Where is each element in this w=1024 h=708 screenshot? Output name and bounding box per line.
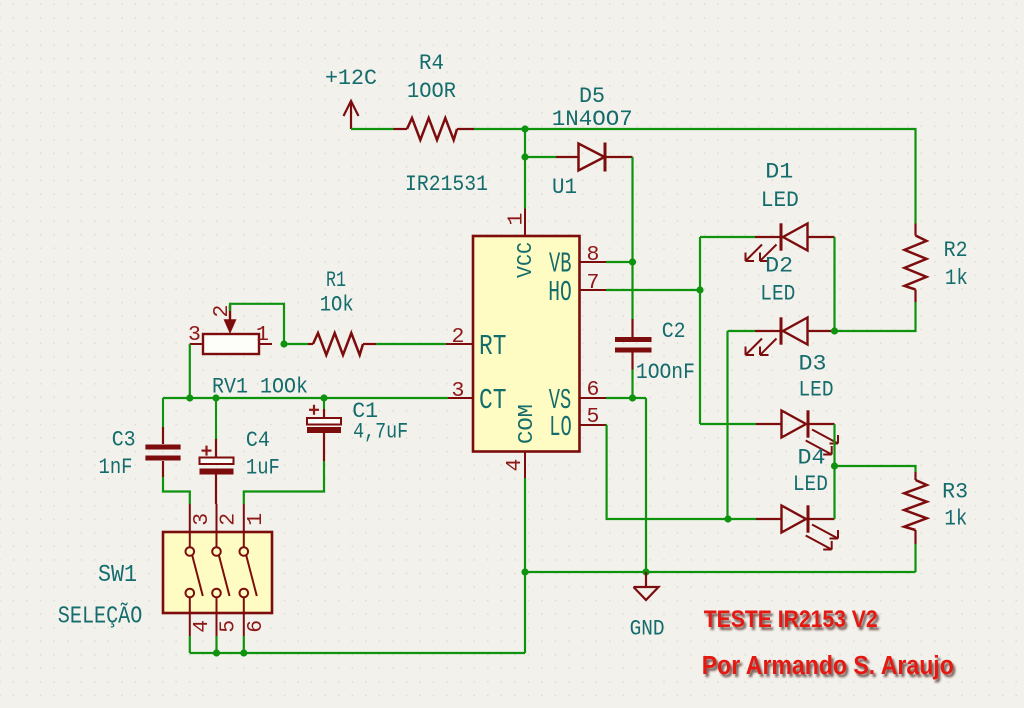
- pin number 3: [452, 379, 465, 403]
- pin number 7: [587, 271, 600, 295]
- svg-text:7: 7: [587, 271, 600, 295]
- wire C1 bottom to SW pin1: [244, 461, 324, 504]
- svg-text:LO: LO: [549, 411, 572, 444]
- svg-text:COM: COM: [515, 404, 539, 444]
- pin name LO: [549, 411, 572, 444]
- LED D1: [755, 223, 835, 250]
- label D5: [579, 83, 605, 109]
- pin name VB: [549, 248, 572, 281]
- pin number 2: [452, 325, 465, 349]
- wire C2 top: [631, 262, 633, 319]
- svg-text:1: 1: [256, 323, 269, 347]
- wire bottom rail up to COM: [524, 572, 526, 653]
- label C4: [246, 427, 270, 453]
- switch pin number 6: [244, 620, 268, 633]
- svg-text:SW1: SW1: [98, 562, 137, 589]
- RV1 pin number 3: [188, 323, 201, 347]
- svg-text:C3: C3: [112, 426, 136, 452]
- capacitor C1 polarity +: [309, 405, 319, 415]
- svg-text:1k: 1k: [945, 265, 968, 291]
- wire D3 cathode down: [833, 424, 835, 466]
- svg-text:4: 4: [190, 620, 214, 633]
- wire C3 bottom to SW pin3: [163, 477, 190, 504]
- RV1 pin number 1: [256, 323, 269, 347]
- op-amp U1 IR2153 body: [473, 236, 580, 452]
- svg-text:1Ok: 1Ok: [320, 292, 354, 318]
- svg-text:1k: 1k: [944, 506, 967, 532]
- svg-text:8: 8: [587, 243, 600, 267]
- label GND: [630, 616, 665, 642]
- svg-text:5: 5: [217, 620, 241, 633]
- label 1nF: [99, 454, 133, 480]
- RV1 pin 1 stub: [259, 343, 272, 345]
- resistor R3: [904, 472, 927, 544]
- svg-text:LED: LED: [793, 471, 828, 497]
- pin name HO: [548, 276, 572, 309]
- label U1: [552, 174, 577, 200]
- junction D5 anode tap: [521, 153, 528, 160]
- junction ground rail / GND: [642, 568, 649, 575]
- potentiometer RV1 body: [203, 334, 259, 354]
- svg-text:1OOR: 1OOR: [407, 78, 456, 104]
- pin number 4: [503, 459, 527, 472]
- svg-text:3: 3: [190, 513, 214, 526]
- wire D1 cathode to D2: [833, 237, 835, 331]
- svg-text:RT: RT: [479, 330, 507, 363]
- svg-text:1OOnF: 1OOnF: [636, 359, 695, 385]
- ground symbol GND: [634, 572, 659, 600]
- diode D5 1N4007: [556, 143, 633, 172]
- pin 8 VB stub: [580, 261, 607, 263]
- svg-text:1uF: 1uF: [246, 454, 280, 480]
- wire +12C to R4: [351, 128, 394, 130]
- switch pole 3 top pin: [189, 504, 191, 547]
- wire D5 cathode down to VB: [631, 157, 633, 262]
- label 1uF: [246, 454, 280, 480]
- wire R4 to VCC junction: [474, 128, 525, 130]
- junction bottom rail pin5: [213, 649, 220, 656]
- switch pole contact circles 2-5: [212, 547, 229, 597]
- svg-text:IR21531: IR21531: [405, 171, 488, 197]
- wire D1 anode lead: [700, 236, 755, 238]
- svg-text:RV1 1OOk: RV1 1OOk: [212, 374, 308, 400]
- wire RV1 pin3 down to CT rail: [189, 344, 191, 398]
- switch pole 5 bottom pin: [216, 598, 218, 637]
- wire R2 bottom to D2: [835, 302, 916, 331]
- pin 3 CT stub: [448, 397, 473, 399]
- resistor R2: [905, 224, 927, 303]
- svg-text:5: 5: [587, 405, 600, 429]
- switch pin number 1: [244, 513, 268, 526]
- wire switch bottom rail: [190, 652, 525, 654]
- svg-text:2: 2: [452, 325, 465, 349]
- junction D3 / D4 / R3: [831, 462, 838, 469]
- capacitor C3: [145, 398, 180, 477]
- wire D5 anode stub: [525, 156, 556, 158]
- label D3 LED: [799, 377, 834, 403]
- pin number 6: [587, 378, 600, 402]
- pin name CT: [479, 384, 507, 417]
- title TESTE IR2153 V2: [704, 606, 878, 633]
- label R4: [419, 50, 444, 76]
- label D2 LED: [760, 281, 795, 307]
- label SELECAO: [58, 603, 143, 631]
- junction bottom rail pin6: [240, 649, 247, 656]
- wire D4 cathode up: [833, 466, 835, 519]
- label R2: [944, 237, 968, 263]
- label IR21531: [405, 171, 488, 197]
- wire C2 bottom to VS: [631, 370, 633, 399]
- svg-text:LED: LED: [760, 281, 795, 307]
- junction CT / C4: [212, 394, 219, 401]
- svg-text:D1: D1: [765, 159, 793, 185]
- pin 6 VS stub: [580, 397, 607, 399]
- pin name RT: [479, 330, 507, 363]
- wire R1 to RT pin: [376, 343, 446, 345]
- junction CT / C1: [320, 394, 327, 401]
- RV1 pin number 2: [210, 305, 234, 318]
- wire HO to LED column: [606, 289, 700, 291]
- pin name VS: [549, 384, 572, 417]
- svg-text:3: 3: [452, 379, 465, 403]
- pin number 1: [505, 213, 529, 226]
- switch SW1 body: [163, 532, 272, 613]
- capacitor C1: [307, 398, 341, 461]
- LED D4 emission arrows: [806, 525, 838, 550]
- svg-text:4: 4: [503, 459, 527, 472]
- svg-text:Por Armando S. Araujo: Por Armando S. Araujo: [702, 652, 954, 680]
- switch pin number 4: [190, 620, 214, 633]
- svg-text:R1: R1: [326, 267, 346, 293]
- switch pole contact circles 1-6: [240, 547, 257, 597]
- LED D2: [755, 317, 835, 344]
- pin number 5: [587, 405, 600, 429]
- pin 2 RT stub: [446, 343, 473, 345]
- svg-text:3: 3: [188, 323, 201, 347]
- label 1N4007: [552, 106, 633, 132]
- switch pin number 3: [190, 513, 214, 526]
- wire COM pin down: [524, 478, 526, 572]
- wire D2 anode lead: [728, 330, 756, 332]
- label C2: [662, 318, 686, 344]
- junction HO / D1-D3 riser: [696, 286, 703, 293]
- junction CT / C3 riser: [186, 394, 193, 401]
- title Por Armando S. Araujo: [702, 652, 954, 680]
- RV1 pin 3 stub: [190, 343, 203, 345]
- wire top rail to R2: [525, 129, 916, 224]
- svg-text:GND: GND: [630, 616, 665, 642]
- pin 4 COM stub: [524, 452, 526, 479]
- wire junction to R3 top: [835, 466, 916, 472]
- label R3 1k: [944, 506, 967, 532]
- junction VCC rail: [521, 125, 528, 132]
- label D1: [765, 159, 793, 185]
- svg-text:HO: HO: [548, 276, 572, 309]
- svg-text:R2: R2: [944, 237, 968, 263]
- svg-text:R3: R3: [942, 479, 968, 505]
- svg-text:U1: U1: [552, 174, 577, 200]
- wire down to U1 pin1: [524, 157, 526, 209]
- junction VS / C2: [629, 394, 636, 401]
- svg-text:1: 1: [505, 213, 529, 226]
- svg-text:CT: CT: [479, 384, 507, 417]
- wire riser D2 to D4: [726, 331, 728, 519]
- label R3: [942, 479, 968, 505]
- wire ground rail: [525, 571, 916, 573]
- label RV1 100k: [212, 374, 308, 400]
- LED D4: [756, 505, 835, 532]
- wire LO down and right to D4: [607, 425, 728, 519]
- wire D4 anode lead: [728, 518, 756, 520]
- label D4: [798, 445, 826, 471]
- label SW1: [98, 562, 137, 589]
- wire VS pin to ground drop: [606, 397, 646, 399]
- wire switch pin 5 to bottom rail: [215, 636, 217, 653]
- switch pole contact circles 3-4: [186, 547, 203, 597]
- label D2: [765, 253, 793, 279]
- svg-text:1N4OO7: 1N4OO7: [552, 106, 633, 132]
- wire D3 anode lead: [700, 423, 756, 425]
- svg-text:D2: D2: [765, 253, 793, 279]
- svg-text:LED: LED: [761, 187, 799, 213]
- LED D3: [756, 410, 835, 437]
- junction RV1 pin1 / R1: [280, 340, 287, 347]
- label 4,7uF: [353, 419, 408, 445]
- wire switch pin 4 to bottom rail: [189, 636, 191, 653]
- svg-text:SELEÇÃO: SELEÇÃO: [58, 603, 143, 631]
- svg-text:D4: D4: [798, 445, 826, 471]
- pin name COM: [515, 404, 539, 444]
- junction COM / ground rail: [521, 568, 528, 575]
- label 100nF: [636, 359, 695, 385]
- svg-text:R4: R4: [419, 50, 444, 76]
- svg-text:TESTE IR2153 V2: TESTE IR2153 V2: [704, 606, 878, 633]
- wire CT rail: [163, 397, 448, 399]
- junction VB / bootstrap: [629, 258, 636, 265]
- svg-text:+12C: +12C: [325, 65, 377, 91]
- switch pole 4 bottom pin: [189, 598, 191, 637]
- switch pole 2 top pin: [216, 504, 218, 547]
- pin 5 LO stub: [580, 424, 608, 426]
- wire VB pin to junction: [606, 261, 633, 263]
- svg-text:6: 6: [587, 378, 600, 402]
- svg-text:4,7uF: 4,7uF: [353, 419, 408, 445]
- label +12C: [325, 65, 377, 91]
- label R1: [326, 267, 346, 293]
- power flag +12C arrow: [344, 101, 359, 129]
- wire RV1 to R1: [284, 343, 308, 345]
- wire RV1 wiper loop: [230, 304, 284, 344]
- switch pin number 2: [217, 513, 241, 526]
- LED D1 emission arrows: [746, 245, 777, 262]
- svg-text:1nF: 1nF: [99, 454, 133, 480]
- svg-text:C4: C4: [246, 427, 270, 453]
- resistor R1: [308, 333, 376, 355]
- wire VS drop to ground rail: [645, 398, 647, 572]
- LED D2 emission arrows: [746, 339, 777, 356]
- pin 7 HO stub: [580, 289, 607, 291]
- label C3: [112, 426, 136, 452]
- label D1 LED: [761, 187, 799, 213]
- svg-text:2: 2: [217, 513, 241, 526]
- junction D2 / R2: [831, 327, 838, 334]
- switch pole 6 bottom pin: [243, 598, 245, 637]
- capacitor C4: [200, 398, 234, 504]
- label 10k: [320, 292, 354, 318]
- svg-text:VCC: VCC: [514, 242, 538, 278]
- switch pole 1 top pin: [243, 504, 245, 547]
- label C1: [352, 398, 378, 424]
- switch pin number 5: [217, 620, 241, 633]
- capacitor C2: [615, 319, 652, 370]
- RV1 wiper arrow: [224, 305, 237, 334]
- svg-text:D3: D3: [799, 351, 827, 377]
- pin name VCC: [514, 242, 538, 278]
- LED D3 emission arrows: [806, 430, 838, 455]
- svg-text:LED: LED: [799, 377, 834, 403]
- svg-text:1: 1: [244, 513, 268, 526]
- label D4 LED: [793, 471, 828, 497]
- junction LO / D2 riser / D4: [724, 515, 731, 522]
- wire riser D1 to D3: [699, 237, 701, 424]
- resistor R4: [394, 118, 475, 140]
- capacitor C4 polarity +: [202, 446, 212, 456]
- pin 1 VCC stub: [524, 209, 526, 237]
- wire switch pin 6 to bottom rail: [243, 636, 245, 653]
- svg-text:C2: C2: [662, 318, 686, 344]
- label D3: [799, 351, 827, 377]
- label R2 1k: [945, 265, 968, 291]
- label 100R: [407, 78, 456, 104]
- wire junction down to D5 row: [524, 129, 526, 157]
- pin number 8: [587, 243, 600, 267]
- svg-text:6: 6: [244, 620, 268, 633]
- wire R3 bottom to ground rail: [914, 544, 916, 572]
